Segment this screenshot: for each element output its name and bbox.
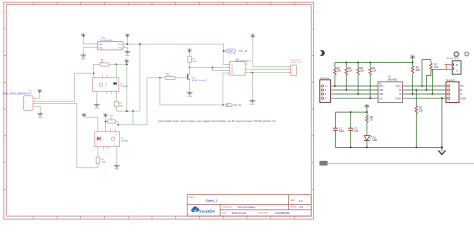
connector J1 breakout bbox=[3, 90, 37, 110]
ground G7 connector bbox=[37, 112, 43, 119]
junction vcc V7 bbox=[105, 121, 107, 123]
svg-text:A: A bbox=[456, 68, 458, 72]
wire opto1 pin4 drop bbox=[115, 64, 117, 77]
wire module vo- to gnd bbox=[123, 47, 127, 50]
connector P2 bbox=[288, 60, 302, 76]
svg-text:10K: 10K bbox=[337, 70, 342, 73]
svg-text:10K: 10K bbox=[101, 162, 105, 164]
svg-text:4: 4 bbox=[25, 106, 26, 108]
wire vcc V7 to R6 and opto2 pin2 bbox=[106, 118, 108, 132]
gnd rail bottom bbox=[335, 146, 442, 148]
junction w3 bbox=[357, 93, 359, 95]
wire NP2 node up to U2 pin4 bbox=[223, 73, 230, 105]
svg-text:1.0: 1.0 bbox=[299, 199, 303, 203]
wires max485 to header2 bbox=[405, 86, 446, 98]
wire U2 to P2 pin2 bbox=[248, 68, 290, 70]
wire vcc2 stem to R4 right bbox=[109, 64, 127, 112]
svg-text:DI: DI bbox=[380, 96, 383, 100]
wire module vo+ to long rail bbox=[123, 38, 224, 111]
junction w1 bbox=[334, 85, 336, 87]
svg-text:Company:: Company: bbox=[222, 207, 232, 209]
IC U2 bbox=[227, 59, 252, 75]
wire vcc V5 to P2 pin1 bbox=[253, 38, 291, 67]
junction w2 bbox=[345, 89, 347, 91]
wire drop to row124 bbox=[132, 111, 134, 125]
wire screw A to row A bbox=[432, 69, 444, 94]
wire opto1 pin1 bottom to gnd bbox=[96, 91, 98, 103]
junction collector node bbox=[189, 67, 191, 69]
resistor R7 under opto2 bbox=[96, 147, 106, 164]
junction gnd tap bbox=[252, 72, 254, 74]
svg-text:TLP621: TLP621 bbox=[121, 140, 129, 142]
svg-text:RE: RE bbox=[380, 88, 384, 92]
ground G3 emitter bbox=[187, 91, 193, 98]
wire opto2 pin4 to gnd bbox=[116, 147, 118, 164]
svg-text:1: 1 bbox=[94, 80, 95, 82]
svg-text:Drawn By:: Drawn By: bbox=[258, 212, 268, 215]
svg-text:+123456789: +123456789 bbox=[274, 211, 290, 215]
resistor R2 bbox=[345, 62, 353, 90]
svg-text:10K: 10K bbox=[360, 70, 365, 73]
svg-text:SIG_IN: SIG_IN bbox=[233, 104, 241, 107]
wire gnd tap down bbox=[251, 73, 253, 100]
wire collector node to U2 pin2 bbox=[190, 67, 230, 69]
junction cap rail vcc bbox=[366, 111, 368, 113]
svg-text:1: 1 bbox=[25, 98, 26, 100]
svg-text:REV:: REV: bbox=[290, 200, 295, 202]
vcc VR1 right sheet bbox=[410, 55, 415, 59]
junction v1 bbox=[421, 85, 423, 87]
svg-text:Your Company: Your Company bbox=[237, 205, 256, 209]
svg-text:3: 3 bbox=[25, 104, 26, 106]
svg-text:GND: GND bbox=[460, 96, 466, 100]
wire vcc to module vin+ bbox=[83, 38, 97, 44]
bus wires header1 to max485 bbox=[334, 86, 378, 98]
screw terminal ST1 bbox=[445, 52, 469, 74]
pullup bus wire bbox=[335, 61, 413, 63]
junction bus r4 bbox=[369, 62, 371, 64]
svg-text:translatie kan niet volgen op: translatie kan niet volgen op rappe boud… bbox=[158, 119, 276, 123]
junction branch bbox=[212, 67, 214, 69]
wire gnd to module vin- bbox=[83, 47, 97, 53]
ground G2 right of module bbox=[125, 50, 131, 57]
ground G6 opto2 bbox=[114, 164, 120, 171]
junction NP2 bbox=[222, 104, 224, 106]
svg-text:120: 120 bbox=[434, 66, 439, 69]
resistor R7 term bbox=[426, 60, 438, 90]
sheet2 divider bar bbox=[320, 161, 474, 165]
svg-text:4: 4 bbox=[116, 80, 117, 82]
junction a1 bbox=[412, 93, 414, 95]
svg-text:TLP621: TLP621 bbox=[121, 86, 129, 88]
vcc V8 connector bbox=[38, 89, 43, 93]
optocoupler U4 bbox=[95, 129, 129, 150]
svg-text:LED: LED bbox=[373, 139, 378, 142]
junction opto1 pin4 top bbox=[116, 64, 118, 66]
vcc V5 above connector feed bbox=[251, 34, 256, 38]
svg-text:VO-: VO- bbox=[118, 47, 122, 49]
svg-text:Screw Term: Screw Term bbox=[446, 57, 459, 60]
top rail caps bbox=[335, 111, 367, 113]
svg-text:SUB_MAIN_BREAKOUT: SUB_MAIN_BREAKOUT bbox=[3, 93, 33, 96]
frame tick marks bbox=[4, 2, 314, 219]
svg-text:MAX485: MAX485 bbox=[388, 78, 398, 81]
svg-text:2: 2 bbox=[292, 69, 293, 71]
svg-text:VO+: VO+ bbox=[118, 44, 123, 46]
svg-text:B: B bbox=[460, 88, 462, 92]
svg-text:1: 1 bbox=[96, 134, 97, 136]
resistor R5 under opto1 pin4 bbox=[115, 91, 124, 111]
vcc V3 (VCC2 under G2) bbox=[125, 60, 130, 64]
resistor R4 bbox=[369, 62, 377, 98]
wire node row y111 bbox=[116, 110, 139, 112]
svg-text:Sheet:: Sheet: bbox=[290, 206, 297, 209]
svg-text:B: B bbox=[399, 88, 401, 92]
wire U2 to P2 pin3 bbox=[248, 72, 290, 74]
svg-text:1uF: 1uF bbox=[354, 130, 359, 133]
svg-text:A: A bbox=[460, 92, 462, 96]
title block bbox=[187, 195, 311, 216]
svg-text:20K: 20K bbox=[416, 69, 421, 72]
wire B opto2 bottom loop to connector pin3 bbox=[37, 103, 98, 167]
capacitor C2 bbox=[348, 112, 359, 147]
svg-text:10K: 10K bbox=[372, 70, 377, 73]
svg-text:VIN-: VIN- bbox=[98, 47, 103, 49]
wire J1 pin4 to gnd bbox=[37, 106, 41, 112]
transistor Q1 bbox=[186, 68, 207, 92]
svg-text:2: 2 bbox=[96, 145, 97, 147]
vcc V4 above R2 bbox=[187, 49, 192, 53]
ground G5 opto1 bbox=[94, 103, 100, 110]
junction reg rail bbox=[139, 43, 141, 45]
svg-text:RO: RO bbox=[380, 84, 384, 88]
header H2 right bbox=[446, 79, 467, 103]
junction base node bbox=[159, 77, 161, 79]
svg-text:Date:: Date: bbox=[222, 212, 228, 215]
wire R4 left to opto1 pin1 bbox=[94, 64, 100, 77]
netport NP2 bbox=[225, 104, 241, 108]
vcc VR2 mid bbox=[365, 104, 370, 108]
svg-text:BC547 or so(?): BC547 or so(?) bbox=[192, 79, 207, 82]
svg-text:VCC: VCC bbox=[410, 55, 416, 59]
wire vcc V6 to opto2 pin1 bbox=[84, 117, 98, 132]
ground G4 bbox=[250, 99, 256, 106]
vcc V6 opto2 left bbox=[82, 113, 87, 117]
junction vcc2 bbox=[126, 64, 128, 66]
svg-text:10K: 10K bbox=[192, 61, 196, 63]
svg-text:VCC: VCC bbox=[364, 105, 370, 109]
junction bus r2 bbox=[345, 62, 347, 64]
resistor R3 bbox=[357, 62, 365, 94]
wire vcc row riser bbox=[422, 60, 431, 86]
junction NP1 bbox=[223, 50, 225, 52]
resistor R2 pullup bbox=[188, 53, 197, 68]
resistor R1 bbox=[334, 62, 342, 86]
svg-text:VCC_M: VCC_M bbox=[238, 49, 247, 53]
svg-text:TITLE:: TITLE: bbox=[189, 197, 195, 199]
sheet frame left bbox=[4, 2, 314, 219]
junction row111 a bbox=[126, 110, 128, 112]
junction b2 bbox=[426, 89, 428, 91]
junction opto1 pin1 bbox=[93, 72, 95, 74]
svg-text:EasyEDA: EasyEDA bbox=[199, 209, 215, 213]
wire J1 pin1 to vcc bbox=[37, 93, 40, 98]
LED D1 bbox=[364, 135, 378, 147]
svg-text:DE: DE bbox=[380, 92, 384, 96]
wire base node down to NP2 rail bbox=[160, 78, 223, 105]
junction bus vcc bbox=[412, 62, 414, 64]
resistor R5 bbox=[415, 90, 424, 147]
header H1 left bbox=[320, 77, 334, 102]
wire base node left bbox=[147, 77, 165, 79]
power module PS1 bbox=[95, 38, 125, 50]
svg-text:5V: 5V bbox=[460, 84, 463, 88]
wire row124 to base riser bbox=[118, 78, 147, 125]
junction row124 bbox=[117, 124, 119, 126]
svg-text:10K: 10K bbox=[348, 70, 353, 73]
netport NP1 bbox=[226, 49, 247, 53]
wire vcc stem to top rail bbox=[366, 108, 368, 112]
svg-text:10uF: 10uF bbox=[339, 130, 345, 133]
ground G1 below module left bbox=[80, 54, 86, 61]
svg-text:IN: IN bbox=[227, 104, 230, 107]
svg-text:2021-01-29: 2021-01-29 bbox=[232, 211, 247, 215]
svg-text:A: A bbox=[399, 92, 401, 96]
svg-text:B: B bbox=[456, 63, 458, 67]
junction gnd arrow bbox=[441, 146, 443, 148]
resistor R3 base series bbox=[165, 73, 185, 79]
svg-text:3: 3 bbox=[115, 145, 116, 147]
vcc V7 opto2 mid bbox=[103, 114, 108, 118]
resistor R6 opto2 top bbox=[108, 116, 118, 125]
svg-text:POW-0505S: POW-0505S bbox=[100, 40, 113, 42]
resistor R6 bbox=[411, 62, 420, 94]
svg-text:5V0: 5V0 bbox=[228, 49, 233, 53]
svg-text:20K: 20K bbox=[419, 109, 424, 112]
wire NP1 down to U2 pin1 bbox=[223, 51, 229, 65]
junction rail c2 bbox=[350, 147, 352, 149]
junction a2 bbox=[432, 93, 434, 95]
junction rail r5 bbox=[415, 147, 417, 149]
port glyph bbox=[319, 50, 325, 56]
optocoupler U3 bbox=[93, 75, 129, 94]
junction rail led bbox=[366, 147, 368, 149]
junction row111 b bbox=[132, 110, 134, 112]
ground arrow GR1 bbox=[438, 147, 445, 154]
svg-text:VCC: VCC bbox=[106, 82, 108, 87]
wire long rail corner to netport NP1 bbox=[224, 44, 226, 51]
junction cap rail c2 bbox=[350, 111, 352, 113]
vcc V2 right of module bbox=[125, 34, 130, 38]
IC U1 MAX485 bbox=[375, 76, 405, 103]
wire vcc to bus bbox=[412, 59, 414, 62]
svg-text:GND: GND bbox=[395, 96, 401, 100]
resistor R8 bbox=[366, 112, 374, 136]
svg-text:3: 3 bbox=[115, 90, 116, 92]
svg-text:VIN+: VIN+ bbox=[98, 44, 104, 46]
svg-text:Sheet_1: Sheet_1 bbox=[206, 199, 218, 203]
junction b1 bbox=[415, 89, 417, 91]
vcc V1 left of module bbox=[81, 34, 86, 38]
svg-text:1K: 1K bbox=[370, 119, 373, 122]
junction w4 bbox=[369, 97, 371, 99]
junction bus r3 bbox=[357, 62, 359, 64]
svg-text:2: 2 bbox=[94, 90, 95, 92]
svg-text:CONN_01_JP: CONN_01_JP bbox=[290, 62, 302, 64]
svg-text:10K: 10K bbox=[119, 105, 123, 107]
junction g1 bbox=[441, 97, 443, 99]
svg-text:3: 3 bbox=[292, 73, 293, 75]
wire gnd row drop bbox=[441, 98, 443, 147]
wire A from connector pin2 bbox=[37, 73, 94, 101]
svg-text:VCC: VCC bbox=[396, 84, 402, 88]
resistor R4 above opto1 bbox=[100, 59, 109, 66]
capacitor C1 bbox=[333, 112, 345, 147]
wire branch to U2 pin3 bbox=[212, 68, 229, 71]
junction module out bbox=[127, 43, 129, 45]
svg-text:4: 4 bbox=[116, 134, 117, 136]
svg-text:1/1: 1/1 bbox=[299, 205, 303, 209]
